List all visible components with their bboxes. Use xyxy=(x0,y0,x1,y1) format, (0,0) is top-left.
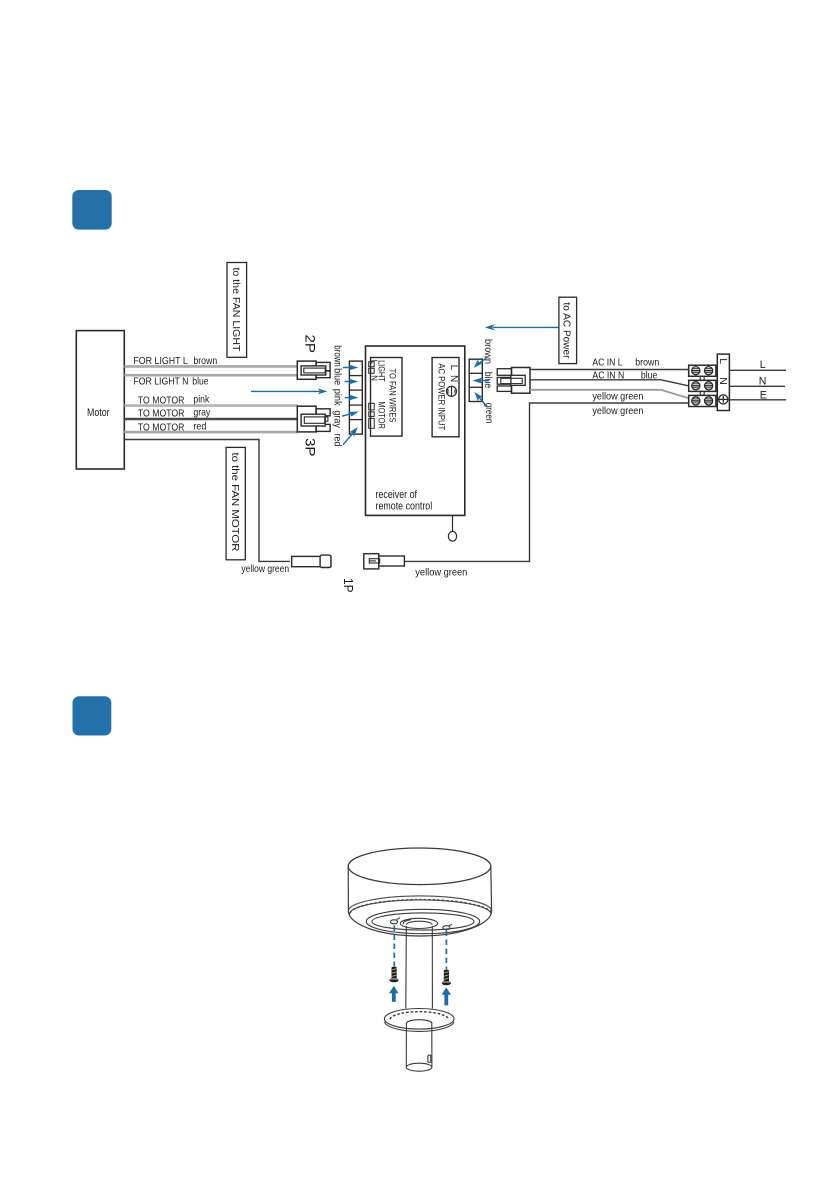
blue section marker 1 xyxy=(72,190,111,230)
small blue arrows to AC pins xyxy=(475,358,489,408)
svg-text:AC POWER INPUT: AC POWER INPUT xyxy=(437,363,447,430)
svg-text:TO MOTOR: TO MOTOR xyxy=(138,396,185,407)
connector 2P xyxy=(297,361,330,379)
terminal block row 2 xyxy=(689,380,716,391)
terminal block row 3 xyxy=(689,395,716,406)
svg-text:yellow green: yellow green xyxy=(592,406,643,417)
svg-text:L: L xyxy=(760,359,766,371)
receiver pull chain xyxy=(448,515,456,541)
label TO MOTOR red xyxy=(138,422,207,434)
receiver of remote control box xyxy=(366,346,465,515)
svg-text:receiver of: receiver of xyxy=(376,489,418,501)
wire AC IN N blue xyxy=(530,380,689,386)
label yellow green (receiver side) xyxy=(415,568,467,579)
AC input 3-pin column xyxy=(469,359,482,401)
box label to AC Power xyxy=(559,297,577,363)
svg-text:FOR LIGHT L: FOR LIGHT L xyxy=(133,356,188,367)
canopy drum bottom silhouette xyxy=(348,911,491,937)
label E xyxy=(760,389,767,401)
receiver terminal AC POWER INPUT box xyxy=(432,358,459,437)
AC molex connector xyxy=(497,368,530,394)
box label to the FAN MOTOR xyxy=(226,447,245,559)
wire TO MOTOR gray xyxy=(124,418,298,421)
svg-text:AC IN N: AC IN N xyxy=(592,370,624,381)
svg-text:brown: brown xyxy=(331,345,342,367)
svg-text:to AC Power: to AC Power xyxy=(561,303,572,360)
box label to the FAN LIGHT xyxy=(227,263,247,358)
svg-text:gray: gray xyxy=(331,410,342,428)
svg-text:L: L xyxy=(448,365,459,371)
wire FOR LIGHT N blue xyxy=(124,374,298,377)
dashed guide line left xyxy=(393,926,395,967)
svg-text:N: N xyxy=(717,377,729,385)
svg-text:yellow green: yellow green xyxy=(415,568,467,579)
label yellow green 2 xyxy=(592,406,643,417)
wire TO MOTOR red xyxy=(124,431,298,434)
blue arrow to connectors xyxy=(251,388,328,394)
svg-text:TO MOTOR: TO MOTOR xyxy=(138,409,185,420)
label 1P xyxy=(341,578,356,593)
labels brown blue green (AC side) xyxy=(482,339,494,423)
label 3P xyxy=(303,438,319,457)
blue arrow to AC power (pointing left) xyxy=(485,324,559,330)
connector 3P xyxy=(297,406,330,432)
svg-text:remote control: remote control xyxy=(376,501,433,513)
svg-text:Motor: Motor xyxy=(87,407,110,419)
wire AC IN L brown xyxy=(530,369,689,371)
receiver terminal TO FAN WIRES box xyxy=(369,358,402,437)
svg-text:green: green xyxy=(483,403,494,424)
canopy drum top rim xyxy=(348,848,491,912)
svg-text:brown: brown xyxy=(635,358,659,369)
pin slot on lower tube xyxy=(428,1055,431,1062)
svg-text:to the FAN LIGHT: to the FAN LIGHT xyxy=(230,268,241,353)
downrod upper tube xyxy=(406,926,433,1008)
wire TO MOTOR pink xyxy=(124,404,298,407)
screw right xyxy=(442,970,451,986)
svg-text:N: N xyxy=(448,375,459,382)
blue arrow up left xyxy=(389,986,398,1002)
motor box xyxy=(76,331,124,469)
svg-text:brown: brown xyxy=(193,356,217,367)
svg-text:blue: blue xyxy=(641,370,658,381)
svg-text:blue: blue xyxy=(331,368,342,385)
canopy seam hatched band xyxy=(348,896,491,915)
terminal junction circles xyxy=(700,376,704,395)
blue arrow up right xyxy=(442,987,451,1005)
svg-text:2P: 2P xyxy=(303,335,319,354)
screw left xyxy=(389,967,398,983)
svg-text:FOR LIGHT N: FOR LIGHT N xyxy=(133,376,188,387)
downrod lower tube xyxy=(406,1020,432,1072)
wire L out xyxy=(729,369,786,371)
wire yellow green 1 xyxy=(530,390,689,399)
connector yellow green (motor side) xyxy=(292,555,331,567)
wire E out xyxy=(728,399,786,401)
svg-text:yellow green: yellow green xyxy=(241,564,289,575)
canopy bottom plate xyxy=(366,909,479,933)
svg-text:red: red xyxy=(193,422,206,433)
svg-text:blue: blue xyxy=(192,376,209,387)
label N xyxy=(759,375,767,387)
connector 1P xyxy=(364,554,405,569)
svg-text:AC IN L: AC IN L xyxy=(592,358,622,369)
terminal block row 1 xyxy=(689,365,716,376)
receiver input 5-pin column xyxy=(349,361,362,434)
svg-text:to the FAN MOTOR: to the FAN MOTOR xyxy=(229,453,240,552)
hanger flange disc xyxy=(384,1009,454,1032)
label TO MOTOR pink xyxy=(138,395,210,407)
svg-text:E: E xyxy=(760,389,767,401)
svg-text:TO MOTOR: TO MOTOR xyxy=(138,423,185,434)
svg-text:LIGHT: LIGHT xyxy=(377,360,387,382)
svg-text:yellow green: yellow green xyxy=(592,391,643,402)
screw hole right xyxy=(443,924,452,930)
svg-text:MOTOR: MOTOR xyxy=(377,401,387,429)
label AC IN L brown xyxy=(592,358,659,369)
blue section marker 2 xyxy=(73,696,112,735)
wire FOR LIGHT L brown xyxy=(124,365,298,368)
svg-text:pink: pink xyxy=(331,389,342,407)
small blue arrows to pins xyxy=(342,366,357,445)
label FOR LIGHT L brown xyxy=(133,356,217,367)
svg-text:red: red xyxy=(331,434,342,447)
label yellow green 1 xyxy=(592,391,643,402)
downrod hole and collar xyxy=(400,918,437,928)
svg-text:pink: pink xyxy=(193,395,210,406)
svg-text:L: L xyxy=(717,358,729,364)
label FOR LIGHT N blue xyxy=(133,376,208,387)
labels brown blue pink gray red xyxy=(331,345,342,446)
label 2P xyxy=(303,335,319,354)
label L xyxy=(760,359,766,371)
wire N out xyxy=(729,385,785,387)
terminal L N earth label box xyxy=(717,354,730,410)
label AC IN N blue xyxy=(592,370,657,381)
svg-text:gray: gray xyxy=(193,408,211,419)
wire yellow green 2 to terminal xyxy=(404,403,689,561)
svg-text:1P: 1P xyxy=(341,578,356,593)
wire yellow green from motor to 1P xyxy=(124,440,290,562)
svg-text:TO FAN WIRES: TO FAN WIRES xyxy=(388,369,398,423)
svg-text:3P: 3P xyxy=(303,438,319,457)
svg-text:N: N xyxy=(759,375,767,387)
dashed guide line right xyxy=(445,931,447,970)
label TO MOTOR gray xyxy=(138,408,211,420)
label yellow green (motor side) xyxy=(241,564,289,575)
screw hole left xyxy=(390,918,400,924)
